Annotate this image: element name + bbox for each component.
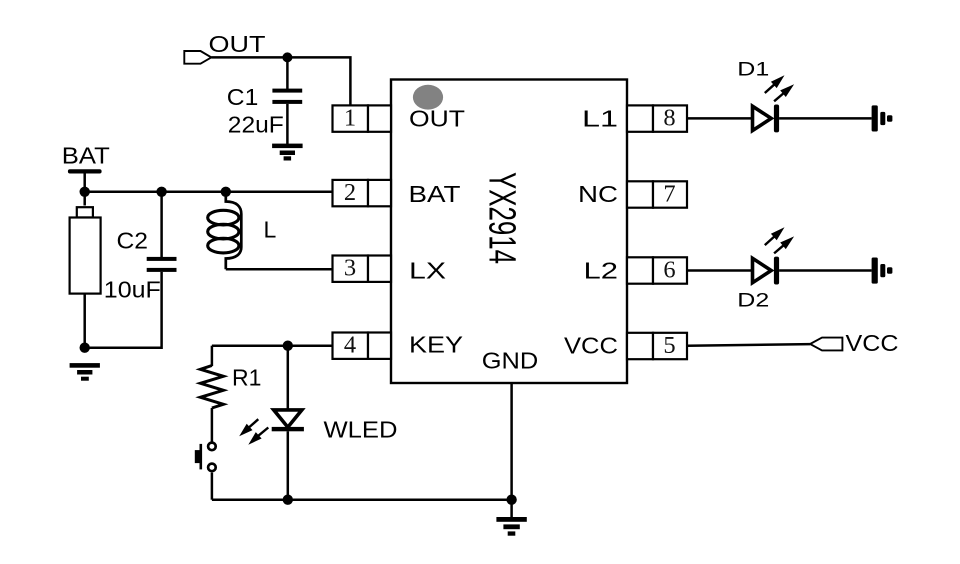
LED D1: [753, 75, 795, 132]
svg-text:OUT: OUT: [209, 31, 266, 57]
LED WLED: [239, 410, 304, 445]
resistor R1: [200, 366, 223, 409]
wire R1 to switch: [211, 408, 214, 442]
node KEY junction: [283, 341, 293, 351]
wire BAT rail to pin 2: [85, 191, 333, 194]
wire pin 6 to D2: [687, 269, 753, 272]
svg-text:8: 8: [663, 105, 675, 132]
pin 5 box: [627, 333, 687, 359]
connector tag VCC: [810, 338, 842, 351]
pin 8 box: [627, 105, 687, 131]
wire ground node to C2 bottom: [85, 272, 162, 348]
wire WLED to bottom rail: [287, 431, 290, 499]
svg-text:VCC: VCC: [564, 333, 618, 359]
svg-text:D1: D1: [737, 59, 769, 81]
node L top junction: [221, 187, 231, 197]
IC pin-1 orientation dot: [413, 85, 443, 110]
inductor L: [208, 192, 242, 269]
capacitor C1: [272, 89, 302, 104]
terminal bar BAT: [68, 169, 102, 173]
wire pin 8 to D1: [687, 117, 753, 120]
wire BAT terminal to battery: [83, 172, 86, 206]
svg-text:L1: L1: [582, 106, 618, 132]
svg-text:7: 7: [663, 180, 675, 207]
IC U1 YX2914 body: [391, 80, 627, 384]
svg-text:5: 5: [663, 332, 675, 359]
pin 4 box: [333, 333, 392, 359]
svg-text:6: 6: [663, 256, 675, 283]
wire pin 5 to VCC tag: [687, 344, 810, 346]
wire KEY rail to pin 4: [212, 344, 333, 347]
svg-text:YX2914: YX2914: [481, 172, 524, 264]
svg-text:VCC: VCC: [846, 330, 899, 356]
svg-text:BAT: BAT: [62, 143, 110, 169]
ground center: [496, 517, 526, 536]
node WLED bottom junction: [283, 495, 293, 505]
wire OUT junction to C1: [286, 57, 289, 89]
ground under battery: [70, 363, 100, 381]
svg-text:OUT: OUT: [409, 106, 465, 132]
svg-text:L: L: [264, 217, 277, 243]
pin 1 box: [333, 105, 392, 131]
wire KEY rail to R1: [211, 346, 214, 366]
ground right of D1: [872, 105, 893, 131]
wire bottom rail right: [288, 498, 512, 501]
pin 7 box: [627, 181, 687, 207]
svg-text:C2: C2: [117, 228, 149, 254]
ground under C1: [272, 144, 303, 161]
node C2 top junction: [156, 187, 166, 197]
svg-text:4: 4: [344, 332, 356, 359]
connector tag OUT: [184, 51, 211, 64]
LED D2: [753, 227, 795, 284]
capacitor C2: [147, 257, 177, 272]
ground right of D2: [872, 258, 893, 284]
pin 2 box: [333, 180, 392, 206]
svg-text:R1: R1: [232, 364, 261, 390]
svg-text:BAT: BAT: [409, 181, 461, 207]
node battery ground junction: [80, 343, 90, 353]
svg-text:GND: GND: [482, 347, 539, 373]
wire IC GND to ground: [510, 383, 513, 518]
wire bottom rail left: [212, 498, 288, 501]
svg-text:10uF: 10uF: [104, 277, 161, 303]
svg-text:22uF: 22uF: [228, 111, 284, 137]
wire C1 to ground: [286, 104, 289, 144]
svg-text:D2: D2: [737, 290, 769, 312]
node GND junction: [506, 495, 516, 505]
svg-text:2: 2: [344, 179, 356, 206]
svg-text:KEY: KEY: [409, 331, 463, 357]
node OUT junction: [282, 52, 292, 62]
wire D1 to right ground: [779, 117, 872, 120]
svg-text:3: 3: [344, 255, 356, 282]
wire switch to bottom rail: [211, 473, 214, 500]
wire battery to ground node: [83, 294, 86, 348]
svg-text:NC: NC: [578, 181, 618, 207]
wire BAT rail to C2: [160, 192, 163, 257]
battery BT1: [70, 207, 101, 293]
pin 6 box: [627, 257, 687, 283]
wire L to pin 3 LX: [226, 268, 333, 271]
node BAT junction: [80, 187, 90, 197]
svg-text:WLED: WLED: [324, 417, 398, 443]
svg-text:C1: C1: [227, 84, 259, 110]
wire D2 to right ground: [779, 269, 872, 272]
wire KEY junction to WLED: [287, 346, 290, 409]
pin 3 box: [333, 256, 392, 282]
svg-text:LX: LX: [409, 258, 446, 284]
switch S1 pushbutton: [195, 443, 216, 472]
svg-text:1: 1: [344, 105, 356, 132]
svg-text:L2: L2: [584, 258, 619, 284]
wire OUT tag to pin 1: [211, 57, 350, 105]
